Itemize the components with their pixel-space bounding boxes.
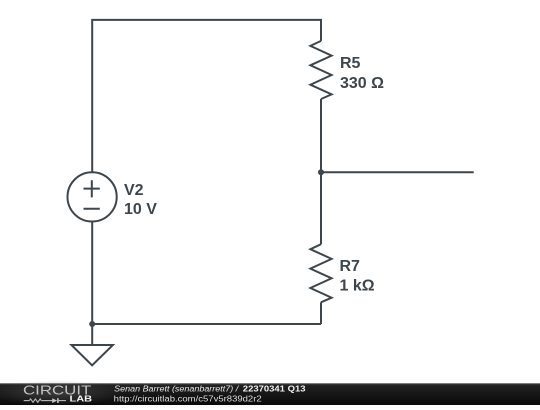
logo glyph resistor zigzag: [29, 399, 41, 402]
node junction dot: [318, 169, 324, 175]
svg-text:330 Ω: 330 Ω: [340, 75, 384, 92]
svg-text:10 V: 10 V: [124, 201, 157, 218]
V2 plus sign: [84, 180, 100, 197]
logo glyph lead-in wire: [24, 400, 30, 402]
footer logo glow: [0, 380, 125, 406]
wire from node to the right: [321, 171, 474, 173]
logo glyph diode triangle: [52, 398, 57, 403]
ground: [71, 345, 113, 365]
wire from V2 - terminal to bottom rail: [91, 222, 93, 325]
svg-text:LAB: LAB: [70, 394, 93, 403]
svg-text:1 kΩ: 1 kΩ: [340, 278, 375, 295]
bottom wire: [92, 323, 321, 325]
resistor R7: [310, 244, 331, 302]
svg-text:R7: R7: [340, 258, 361, 275]
footer bar: [0, 383, 540, 405]
svg-text:R5: R5: [340, 55, 361, 72]
wire from V2 + terminal up and across top to R5: [92, 20, 321, 173]
logo glyph wire out of diode: [58, 400, 66, 402]
junction dot at ground node: [89, 321, 95, 327]
svg-text:V2: V2: [124, 182, 144, 199]
wire from R5 to R7 through node: [320, 99, 322, 244]
V2 minus sign: [84, 208, 100, 210]
wire from R7 to bottom rail: [320, 302, 322, 324]
wire from node to ground: [91, 324, 93, 345]
svg-text:Senan Barrett (senanbarrett7): Senan Barrett (senanbarrett7) /: [114, 384, 239, 393]
resistor R5: [310, 41, 331, 99]
voltage source V2 body: [68, 172, 117, 221]
svg-text:http://circuitlab.com/c57v5r83: http://circuitlab.com/c57v5r839d2r2: [114, 394, 263, 403]
svg-text:22370341 Q13: 22370341 Q13: [243, 384, 306, 393]
logo glyph diode bar: [57, 398, 59, 403]
logo glyph wire to diode: [41, 400, 52, 402]
